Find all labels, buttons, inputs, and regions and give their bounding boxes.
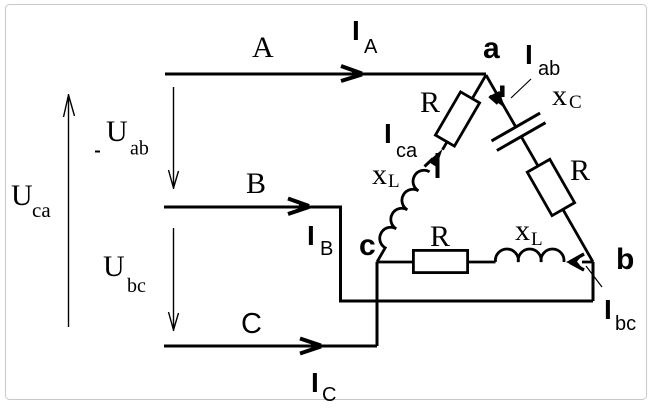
svg-text:ab: ab <box>130 138 149 160</box>
svg-text:x: x <box>372 158 387 191</box>
svg-text:bc: bc <box>127 275 146 297</box>
svg-text:ab: ab <box>538 58 560 80</box>
svg-text:R: R <box>430 220 450 253</box>
svg-text:I: I <box>384 118 392 149</box>
svg-text:C: C <box>241 308 262 340</box>
svg-text:c: c <box>359 229 376 262</box>
svg-text:ca: ca <box>32 198 51 222</box>
svg-text:x: x <box>552 79 567 112</box>
svg-text:B: B <box>246 167 266 200</box>
svg-text:L: L <box>531 229 543 250</box>
svg-text:I: I <box>525 39 533 70</box>
svg-text:ca: ca <box>396 140 418 162</box>
svg-text:bc: bc <box>615 313 636 335</box>
svg-text:U: U <box>106 115 128 148</box>
svg-text:C: C <box>569 92 582 113</box>
svg-text:a: a <box>483 32 500 65</box>
svg-text:I: I <box>311 367 319 398</box>
svg-text:A: A <box>252 31 274 64</box>
svg-text:I: I <box>604 294 612 325</box>
svg-text:U: U <box>103 250 125 283</box>
svg-text:B: B <box>320 238 333 260</box>
svg-text:U: U <box>11 179 33 212</box>
svg-text:C: C <box>322 384 336 406</box>
svg-text:A: A <box>364 36 378 58</box>
svg-text:R: R <box>570 154 590 187</box>
svg-text:R: R <box>420 86 440 119</box>
svg-text:x: x <box>515 214 530 247</box>
svg-text:I: I <box>307 220 315 251</box>
svg-text:I: I <box>352 15 360 46</box>
svg-text:b: b <box>616 243 634 276</box>
svg-text:L: L <box>388 171 400 192</box>
